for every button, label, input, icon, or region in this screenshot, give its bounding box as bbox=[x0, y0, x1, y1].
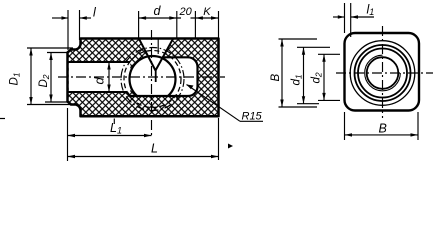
extension line d right bbox=[176, 11, 178, 39]
d2 dimension line bbox=[323, 54, 325, 100]
extension line body left edge bbox=[79, 10, 81, 40]
B extensions bbox=[279, 38, 318, 40]
d2 circle bbox=[358, 49, 407, 98]
dimension K line bbox=[195, 17, 218, 19]
V cone right line bbox=[156, 39, 174, 71]
svg-text:В: В bbox=[379, 122, 387, 136]
dashed hidden circle bbox=[124, 51, 181, 108]
square outline bbox=[345, 33, 420, 111]
chamber circle solid bbox=[130, 56, 176, 96]
D1 extension bottom bbox=[27, 104, 71, 106]
svg-text:В: В bbox=[270, 74, 282, 82]
part outline bbox=[68, 39, 219, 117]
D1 extension top bbox=[27, 47, 73, 49]
svg-text:K: K bbox=[203, 6, 211, 18]
dash-dot circle bbox=[121, 48, 184, 111]
apex drop line bbox=[155, 71, 157, 83]
extension line d left bbox=[138, 11, 140, 39]
hole circle bbox=[367, 57, 399, 89]
channel bottom edge bbox=[68, 91, 128, 93]
right view vertical centerline bbox=[382, 26, 384, 118]
white cavity: central chamber circle bbox=[130, 56, 176, 96]
dimension l outside arrows bbox=[52, 17, 68, 19]
V cone left line bbox=[139, 39, 156, 71]
extension line 20/K bbox=[194, 11, 196, 39]
white cavity: horizontal channel d bbox=[69, 62, 131, 92]
channel top edge bbox=[68, 61, 131, 63]
d2 extensions bbox=[318, 53, 340, 55]
pocket outline bbox=[162, 57, 198, 96]
hidden line near top slot bbox=[157, 39, 159, 54]
left extension bbox=[67, 108, 69, 161]
B dimension line bbox=[281, 39, 283, 107]
artifact dash far left bbox=[0, 118, 5, 120]
svg-text:d: d bbox=[154, 4, 162, 18]
chamber floor line bbox=[130, 95, 188, 97]
d1 extensions bbox=[297, 46, 330, 48]
right extension bbox=[218, 118, 220, 160]
D2 extension top bbox=[47, 52, 69, 54]
hatched body of part bbox=[68, 39, 219, 117]
B circle (boss fillet) bbox=[350, 41, 415, 106]
D2 dimension line bbox=[50, 53, 52, 103]
white cavity: right pocket R15 bbox=[150, 57, 198, 96]
extension line boss face bbox=[67, 10, 69, 50]
white cavity: conical V opening bbox=[139, 39, 173, 71]
artifact small vertical tick bbox=[113, 119, 115, 125]
svg-text:R15: R15 bbox=[242, 111, 263, 123]
L dimension line bbox=[68, 156, 219, 158]
svg-text:d: d bbox=[92, 77, 107, 85]
dimension 20 line bbox=[177, 17, 196, 19]
svg-text:L: L bbox=[151, 142, 158, 156]
vertical centerline bbox=[151, 30, 153, 138]
right view horizontal centerline bbox=[336, 72, 433, 74]
d1 circle bbox=[355, 45, 411, 101]
artifact triangle bottom right bbox=[228, 144, 233, 149]
L1 dimension line bbox=[68, 135, 152, 137]
dimension d line bbox=[139, 17, 177, 19]
svg-text:20: 20 bbox=[179, 6, 193, 18]
thread arc bbox=[365, 55, 401, 91]
d1 dimension line bbox=[303, 47, 305, 103]
step arc channel to chamber floor bbox=[127, 92, 130, 96]
horizontal centerline bbox=[58, 76, 225, 78]
D1 dimension line bbox=[30, 48, 32, 105]
extension line right edge top bbox=[218, 11, 220, 39]
D2 extension bottom bbox=[45, 101, 69, 103]
